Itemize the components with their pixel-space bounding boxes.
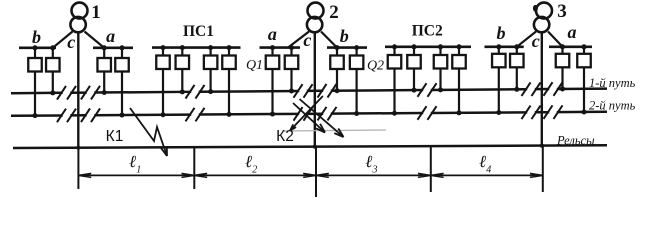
svg-text:a: a [268, 24, 277, 44]
svg-text:ℓ: ℓ [129, 152, 136, 171]
svg-text:1-й путь: 1-й путь [589, 76, 636, 90]
svg-text:a: a [106, 26, 115, 46]
svg-text:b: b [497, 23, 506, 43]
svg-text:ℓ: ℓ [245, 152, 252, 171]
svg-text:3: 3 [372, 164, 378, 175]
svg-text:ПС2: ПС2 [412, 23, 443, 40]
svg-text:ℓ: ℓ [479, 152, 486, 171]
svg-text:c: c [303, 30, 311, 50]
svg-text:2: 2 [329, 2, 339, 23]
svg-text:a: a [568, 22, 577, 42]
svg-text:1: 1 [91, 2, 101, 23]
svg-text:Q2: Q2 [367, 59, 384, 74]
svg-text:b: b [340, 26, 349, 46]
svg-text:2-й путь: 2-й путь [589, 99, 636, 113]
svg-text:c: c [67, 32, 75, 52]
svg-text:Рельсы: Рельсы [556, 134, 595, 148]
svg-text:b: b [32, 27, 41, 47]
svg-text:Q1: Q1 [246, 58, 263, 73]
svg-text:3: 3 [557, 1, 567, 22]
svg-text:К1: К1 [106, 128, 124, 145]
svg-text:1: 1 [136, 164, 141, 175]
svg-text:ℓ: ℓ [365, 152, 372, 171]
svg-text:4: 4 [486, 164, 491, 175]
svg-text:c: c [532, 31, 540, 51]
svg-text:ПС1: ПС1 [183, 23, 214, 40]
svg-text:К2: К2 [276, 128, 294, 145]
svg-text:2: 2 [252, 164, 257, 175]
